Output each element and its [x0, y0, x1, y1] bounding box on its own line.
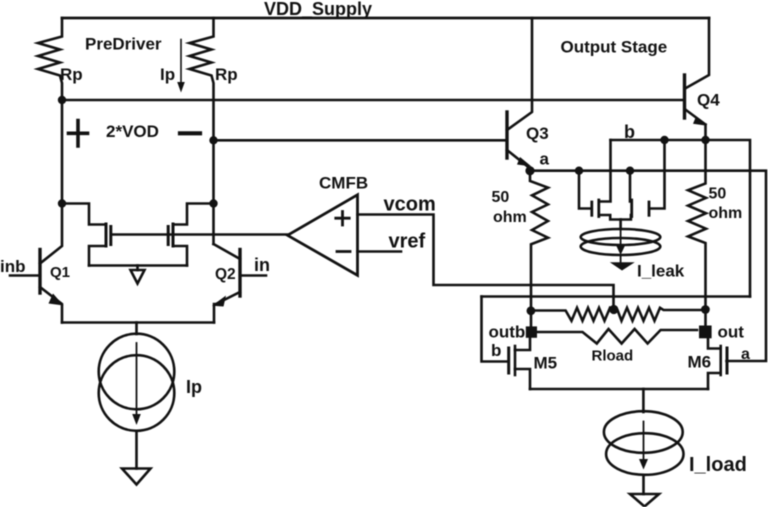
svg-text:ohm: ohm	[709, 205, 743, 222]
svg-text:PreDriver: PreDriver	[85, 35, 162, 54]
svg-text:VDD_Supply: VDD_Supply	[264, 0, 372, 19]
svg-text:CMFB: CMFB	[319, 174, 368, 193]
svg-text:50: 50	[709, 186, 727, 203]
svg-text:I_leak: I_leak	[637, 262, 685, 281]
svg-text:Q4: Q4	[697, 91, 720, 110]
svg-text:Output Stage: Output Stage	[561, 38, 668, 57]
svg-text:vref: vref	[389, 231, 426, 253]
svg-text:in: in	[254, 255, 270, 275]
svg-text:outb: outb	[489, 323, 526, 342]
svg-text:50: 50	[492, 189, 510, 206]
svg-text:ohm: ohm	[493, 209, 527, 226]
svg-text:Ip: Ip	[186, 377, 202, 397]
svg-text:a: a	[741, 346, 750, 363]
svg-text:inb: inb	[0, 257, 26, 276]
svg-text:vcom: vcom	[384, 194, 436, 216]
svg-text:M6: M6	[688, 353, 712, 372]
svg-text:Rp: Rp	[60, 65, 83, 84]
svg-text:out: out	[718, 323, 745, 342]
svg-text:b: b	[491, 341, 501, 360]
svg-text:M5: M5	[534, 354, 558, 373]
svg-text:Q2: Q2	[215, 266, 236, 283]
svg-text:Rp: Rp	[215, 65, 238, 84]
svg-text:Rload: Rload	[592, 348, 634, 365]
svg-text:Ip: Ip	[160, 65, 175, 84]
svg-text:a: a	[540, 150, 550, 169]
svg-text:Q1: Q1	[50, 264, 70, 281]
svg-text:I_load: I_load	[689, 454, 747, 476]
svg-text:b: b	[624, 122, 635, 142]
svg-text:Q3: Q3	[526, 124, 549, 143]
svg-text:2*VOD: 2*VOD	[106, 122, 159, 141]
